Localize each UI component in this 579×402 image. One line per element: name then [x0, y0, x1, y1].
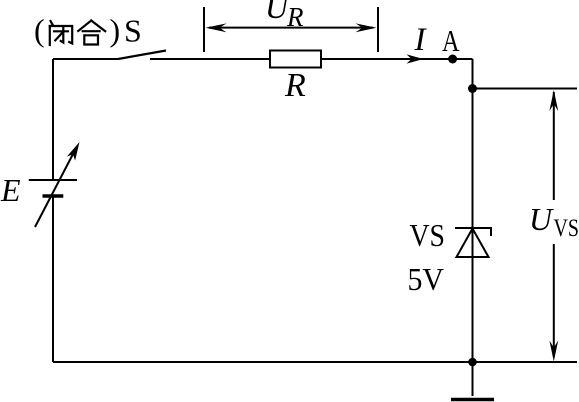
- svg-text:5V: 5V: [408, 261, 445, 297]
- svg-text:VS: VS: [554, 215, 579, 242]
- svg-text:(: (: [34, 12, 45, 48]
- svg-text:R: R: [284, 67, 306, 104]
- svg-text:R: R: [286, 2, 304, 32]
- svg-text:I: I: [414, 22, 428, 58]
- svg-text:): ): [110, 12, 121, 48]
- svg-text:A: A: [442, 23, 460, 58]
- svg-text:U: U: [529, 201, 554, 237]
- svg-text:S: S: [124, 13, 142, 49]
- svg-text:E: E: [0, 172, 21, 208]
- svg-text:VS: VS: [410, 217, 446, 253]
